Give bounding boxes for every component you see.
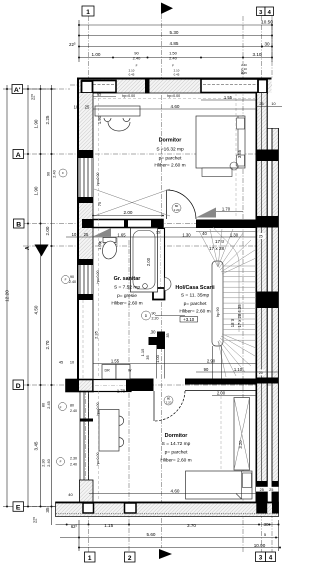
svg-text:2.20: 2.20: [174, 208, 180, 212]
bottom dimension lines: [56, 520, 281, 551]
svg-text:F: F: [62, 171, 64, 175]
room label gr sanitar: [111, 276, 142, 307]
svg-text:3.45: 3.45: [34, 441, 39, 450]
svg-text:90: 90: [152, 312, 156, 316]
right wall black connectors: [256, 150, 279, 162]
room label bedroom1: [154, 138, 185, 169]
svg-text:90: 90: [204, 367, 209, 372]
svg-text:1.15: 1.15: [140, 348, 145, 357]
svg-text:hp=0.00: hp=0.00: [96, 402, 100, 415]
svg-text:1.15: 1.15: [104, 523, 113, 528]
svg-text:3.55: 3.55: [237, 149, 242, 158]
svg-text:1.70: 1.70: [117, 389, 126, 394]
svg-text:40: 40: [68, 492, 73, 497]
door tag U1: [172, 204, 181, 213]
washer dryer: [102, 365, 116, 380]
svg-text:hp=0.00: hp=0.00: [96, 270, 100, 283]
section A triangle: [35, 245, 49, 257]
svg-text:90: 90: [70, 275, 74, 279]
dim row y372: [196, 371, 278, 373]
svg-text:0.45: 0.45: [129, 73, 135, 77]
svg-text:90: 90: [47, 172, 51, 176]
svg-text:hp=0.00: hp=0.00: [167, 94, 180, 98]
corner post top-right: [258, 80, 267, 94]
interior wall vertical x156.5-164.5: [157, 229, 165, 289]
bedroom2 wardrobe: [234, 398, 250, 471]
svg-text:E: E: [16, 505, 21, 512]
svg-text:2.70: 2.70: [45, 340, 50, 349]
left step-out wall at D: [66, 380, 93, 392]
svg-text:A: A: [16, 152, 21, 159]
svg-text:hp=0.00: hp=0.00: [96, 172, 100, 185]
svg-text:5.30: 5.30: [170, 30, 179, 35]
left window tag circles: [57, 169, 70, 466]
svg-text:Hliber= 2.60 m: Hliber= 2.60 m: [179, 309, 210, 315]
svg-text:hp 90: hp 90: [216, 307, 220, 317]
svg-text:2.40: 2.40: [70, 463, 77, 467]
svg-text:10: 10: [70, 361, 74, 365]
svg-text:2.30: 2.30: [70, 457, 77, 461]
svg-text:40: 40: [202, 231, 207, 236]
svg-text:10: 10: [271, 102, 275, 106]
svg-text:30: 30: [264, 42, 270, 47]
svg-text:2.40: 2.40: [53, 170, 57, 177]
dim row y363: [93, 363, 256, 365]
left lower wall hatch to terrace: [80, 480, 94, 502]
svg-text:F: F: [136, 64, 138, 68]
L wall below door: [149, 332, 166, 350]
top winder fan: [199, 229, 256, 274]
svg-text:hp=0.00: hp=0.00: [122, 94, 135, 98]
wall divider black: [145, 78, 150, 94]
svg-text:D: D: [16, 383, 21, 390]
svg-text:A': A': [14, 87, 21, 94]
svg-text:2: 2: [128, 555, 132, 562]
svg-text:3.10: 3.10: [253, 52, 262, 57]
svg-text:2.45: 2.45: [47, 401, 51, 408]
svg-text:DR: DR: [105, 369, 111, 373]
svg-text:4.60: 4.60: [171, 488, 180, 493]
bottom winder fan: [218, 334, 256, 377]
svg-text:2.40: 2.40: [70, 409, 77, 413]
left dimension lines: [3, 85, 56, 525]
interior dimension 65: [93, 96, 116, 98]
svg-text:p= parchet: p= parchet: [159, 156, 182, 162]
svg-text:10: 10: [241, 70, 245, 74]
tick dots top: [78, 24, 273, 59]
svg-text:1.10: 1.10: [234, 367, 243, 372]
svg-text:2.35: 2.35: [93, 330, 98, 339]
dim 25 10 top right: [256, 106, 282, 108]
dim 4.60 bedroom2: [89, 493, 256, 495]
bedroom2 bed: [186, 471, 253, 499]
svg-text:12.20: 12.20: [5, 290, 10, 302]
right wall 25 labels: [258, 233, 266, 376]
svg-text:S =16.32 mp: S =16.32 mp: [156, 147, 184, 153]
svg-text:10.50: 10.50: [261, 20, 273, 25]
svg-text:F: F: [65, 278, 67, 282]
svg-text:hp=0.00: hp=0.00: [96, 452, 100, 465]
svg-text:p= parchet: p= parchet: [165, 450, 188, 456]
svg-text:S = 11. 35mp: S = 11. 35mp: [181, 293, 210, 299]
svg-text:25: 25: [269, 488, 273, 492]
corner post top-left: [82, 81, 93, 93]
svg-text:3.70: 3.70: [187, 523, 196, 528]
svg-text:25: 25: [85, 105, 90, 110]
dim 2.00 under W2 right: [212, 395, 256, 397]
bedroom2 door leaf+arc: [154, 391, 185, 421]
svg-text:75: 75: [97, 201, 102, 206]
svg-text:30: 30: [263, 522, 269, 527]
svg-text:45: 45: [59, 361, 63, 365]
bedroom1 dresser: [95, 106, 140, 116]
svg-text:2.25: 2.25: [45, 115, 50, 124]
svg-text:1: 1: [86, 9, 90, 16]
grid axis dash-dot lines: [23, 14, 278, 552]
dim 1.70 near stairs door: [216, 211, 243, 213]
svg-text:35: 35: [166, 333, 170, 337]
svg-text:2.20: 2.20: [152, 317, 159, 321]
svg-text:F: F: [60, 460, 62, 464]
svg-text:2.00: 2.00: [146, 257, 151, 266]
svg-text:80: 80: [70, 404, 74, 408]
svg-text:.30: .30: [150, 330, 156, 335]
svg-text:35: 35: [145, 355, 150, 360]
svg-text:25: 25: [84, 232, 89, 237]
top dimension lines: [79, 20, 272, 62]
terrace band bottom: [56, 502, 279, 517]
svg-text:S = 14.72 mp: S = 14.72 mp: [162, 441, 191, 447]
svg-text:65: 65: [97, 93, 101, 97]
svg-text:Dormitor: Dormitor: [165, 433, 189, 439]
svg-text:1.55: 1.55: [111, 359, 120, 364]
svg-text:35: 35: [45, 507, 50, 513]
dim row under W1: [66, 236, 256, 238]
room label hol: [175, 285, 215, 315]
svg-text:Gr. sanitar: Gr. sanitar: [114, 276, 142, 282]
svg-text:15: 15: [156, 231, 160, 235]
bottom grid boxes: [85, 552, 276, 562]
svg-text:F: F: [172, 64, 174, 68]
svg-text:W: W: [128, 369, 132, 373]
right wall A band: [256, 93, 267, 514]
svg-text:25: 25: [259, 102, 263, 106]
top dimension texts: [69, 20, 273, 57]
grey door wedge bathroom: [93, 228, 111, 237]
svg-text:S = 7.52 mp: S = 7.52 mp: [114, 285, 140, 291]
top exterior wall band: [78, 78, 272, 94]
svg-text:0.45: 0.45: [174, 73, 180, 77]
svg-text:1.55: 1.55: [224, 95, 233, 100]
svg-text:Hliber= 2.60 m: Hliber= 2.60 m: [154, 163, 185, 169]
bedroom1 door leaf + arc: [167, 190, 197, 219]
svg-text:p= gresie: p= gresie: [117, 293, 137, 299]
walk line: [213, 227, 239, 332]
grey door wedge near stairs: [196, 208, 216, 218]
svg-text:2.40: 2.40: [69, 280, 76, 284]
svg-text:17 tr: 17 tr: [215, 239, 225, 244]
svg-text:1.30: 1.30: [182, 233, 191, 238]
section flag bottom: [159, 549, 172, 559]
svg-text:1.30: 1.30: [230, 233, 239, 238]
svg-text:4.60: 4.60: [171, 104, 180, 109]
svg-text:10: 10: [74, 105, 79, 110]
svg-text:Hliber= 2.60 m: Hliber= 2.60 m: [160, 458, 191, 464]
svg-text:1.00: 1.00: [155, 354, 160, 363]
left rotated dimension texts: [5, 94, 51, 524]
svg-text:4.50: 4.50: [34, 305, 39, 314]
bedroom1 desk bottom: [202, 168, 232, 177]
svg-text:2.30: 2.30: [42, 459, 46, 466]
svg-text:2.00: 2.00: [45, 226, 50, 235]
svg-text:2.40: 2.40: [169, 56, 178, 61]
svg-text:2.00: 2.00: [217, 390, 226, 395]
right neighbour wall C: [272, 128, 279, 514]
bathtub: [131, 228, 158, 292]
svg-text:2.40: 2.40: [47, 459, 51, 466]
sink on hol side: [165, 278, 172, 291]
bedroom1 chairs: [104, 118, 111, 122]
svg-text:Dormitor: Dormitor: [159, 138, 183, 144]
dim 4.60 top: [93, 108, 256, 110]
room label bedroom2: [160, 433, 191, 464]
X slope zone bathroom/bedroom1: [94, 189, 170, 216]
svg-text:1: 1: [88, 555, 92, 562]
svg-text:1.00: 1.00: [92, 52, 101, 57]
svg-text:25: 25: [259, 235, 263, 239]
bedroom1 bed: [196, 116, 245, 168]
left lower window band (y391-480): [80, 392, 89, 481]
svg-text:F: F: [60, 406, 62, 410]
svg-text:2.40: 2.40: [133, 56, 142, 61]
small window tag texts top: [129, 63, 248, 77]
section flag top: [161, 3, 173, 15]
left wall window 2 (y265-294): [79, 265, 94, 294]
grid boxes 3 4 top: [257, 7, 274, 16]
left exterior wall: [78, 93, 93, 150]
svg-text:1.00: 1.00: [97, 241, 102, 250]
left grid bubbles: [12, 85, 24, 512]
top window 2: [201, 79, 267, 93]
svg-text:1.90: 1.90: [97, 115, 102, 124]
svg-text:2.20: 2.20: [166, 400, 172, 404]
svg-text:B: B: [16, 222, 21, 229]
dim 1.55 top right: [201, 99, 256, 101]
svg-text:10.90: 10.90: [254, 543, 266, 548]
svg-text:p= parchet: p= parchet: [184, 301, 207, 307]
bedroom2 desk: [99, 410, 119, 452]
svg-text:1.70: 1.70: [222, 207, 231, 212]
door tag hol: [142, 311, 151, 320]
svg-text:1.90: 1.90: [34, 186, 39, 195]
svg-text:Hliber= 2.60 m: Hliber= 2.60 m: [111, 301, 142, 307]
stair spine: [212, 261, 223, 346]
grid box 1 top: [82, 6, 94, 16]
top window 1: [82, 81, 116, 93]
svg-text:A: A: [25, 246, 31, 250]
svg-text:+3.10: +3.10: [183, 317, 195, 322]
svg-text:3.20: 3.20: [238, 440, 243, 449]
svg-text:2.90: 2.90: [207, 359, 216, 364]
svg-text:17 x 28: 17 x 28: [209, 246, 225, 251]
svg-text:2.00: 2.00: [124, 210, 133, 215]
left wall window 1 (y158-197): [79, 158, 94, 197]
svg-text:Hol/Casa Scarii: Hol/Casa Scarii: [175, 285, 215, 291]
svg-text:4.85: 4.85: [170, 41, 179, 46]
svg-text:80: 80: [42, 403, 46, 407]
hp dashed lines: [93, 93, 256, 502]
interior wall W1 (y219-228.5): [93, 220, 163, 228]
svg-text:1.65: 1.65: [117, 233, 126, 238]
svg-text:25: 25: [260, 488, 264, 492]
interior wall W2 (y378.5-391): [93, 380, 131, 392]
toilet: [103, 238, 116, 243]
svg-text:1.90: 1.90: [34, 119, 39, 128]
svg-text:18 tr: 18 tr: [230, 318, 235, 327]
svg-text:5.60: 5.60: [147, 532, 156, 537]
dim 2.00 bathroom top: [93, 215, 163, 217]
svg-text:17 x 28 4.35: 17 x 28 4.35: [237, 304, 242, 328]
svg-text:10: 10: [72, 232, 77, 237]
right flight treads: [223, 266, 256, 340]
